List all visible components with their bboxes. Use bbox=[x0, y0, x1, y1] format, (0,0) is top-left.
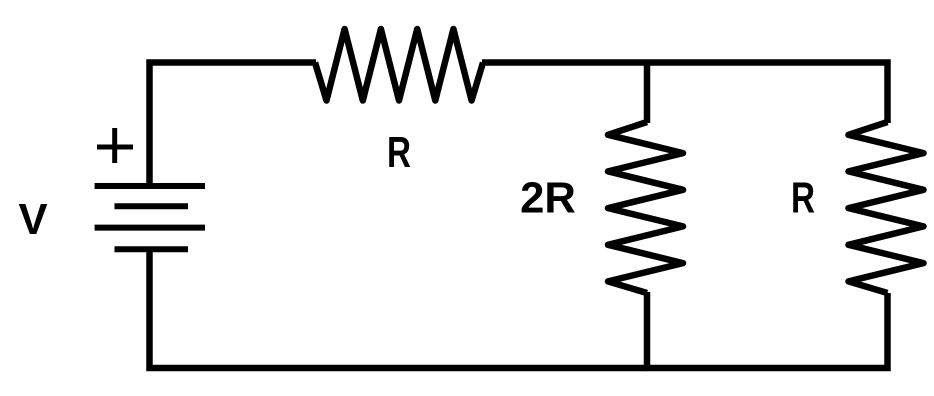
svg-text:R: R bbox=[387, 129, 411, 177]
resistor R2 (2R) vertical zigzag bbox=[608, 122, 683, 293]
wire bottom-right segment bbox=[647, 293, 888, 368]
wire top-left horizontal segment bbox=[150, 63, 317, 187]
label + (battery positive) bbox=[97, 128, 133, 163]
wire middle branch bottom stub bbox=[644, 292, 651, 368]
svg-text:2R: 2R bbox=[520, 175, 576, 223]
battery V: long plate 2 bbox=[95, 225, 205, 231]
svg-text:V: V bbox=[18, 196, 47, 244]
resistor R1 top horizontal zigzag bbox=[315, 29, 483, 101]
battery V: short plate 1 bbox=[115, 203, 189, 209]
battery V: short plate 2 bbox=[115, 246, 189, 252]
wire battery negative to bottom-left corner bbox=[150, 249, 649, 368]
resistor R3 (R) vertical zigzag bbox=[849, 122, 924, 293]
battery V: long plate 1 bbox=[95, 183, 205, 189]
wire top-right horizontal segment bbox=[482, 63, 888, 124]
wire middle branch top stub bbox=[644, 63, 651, 124]
svg-text:R: R bbox=[791, 175, 815, 223]
